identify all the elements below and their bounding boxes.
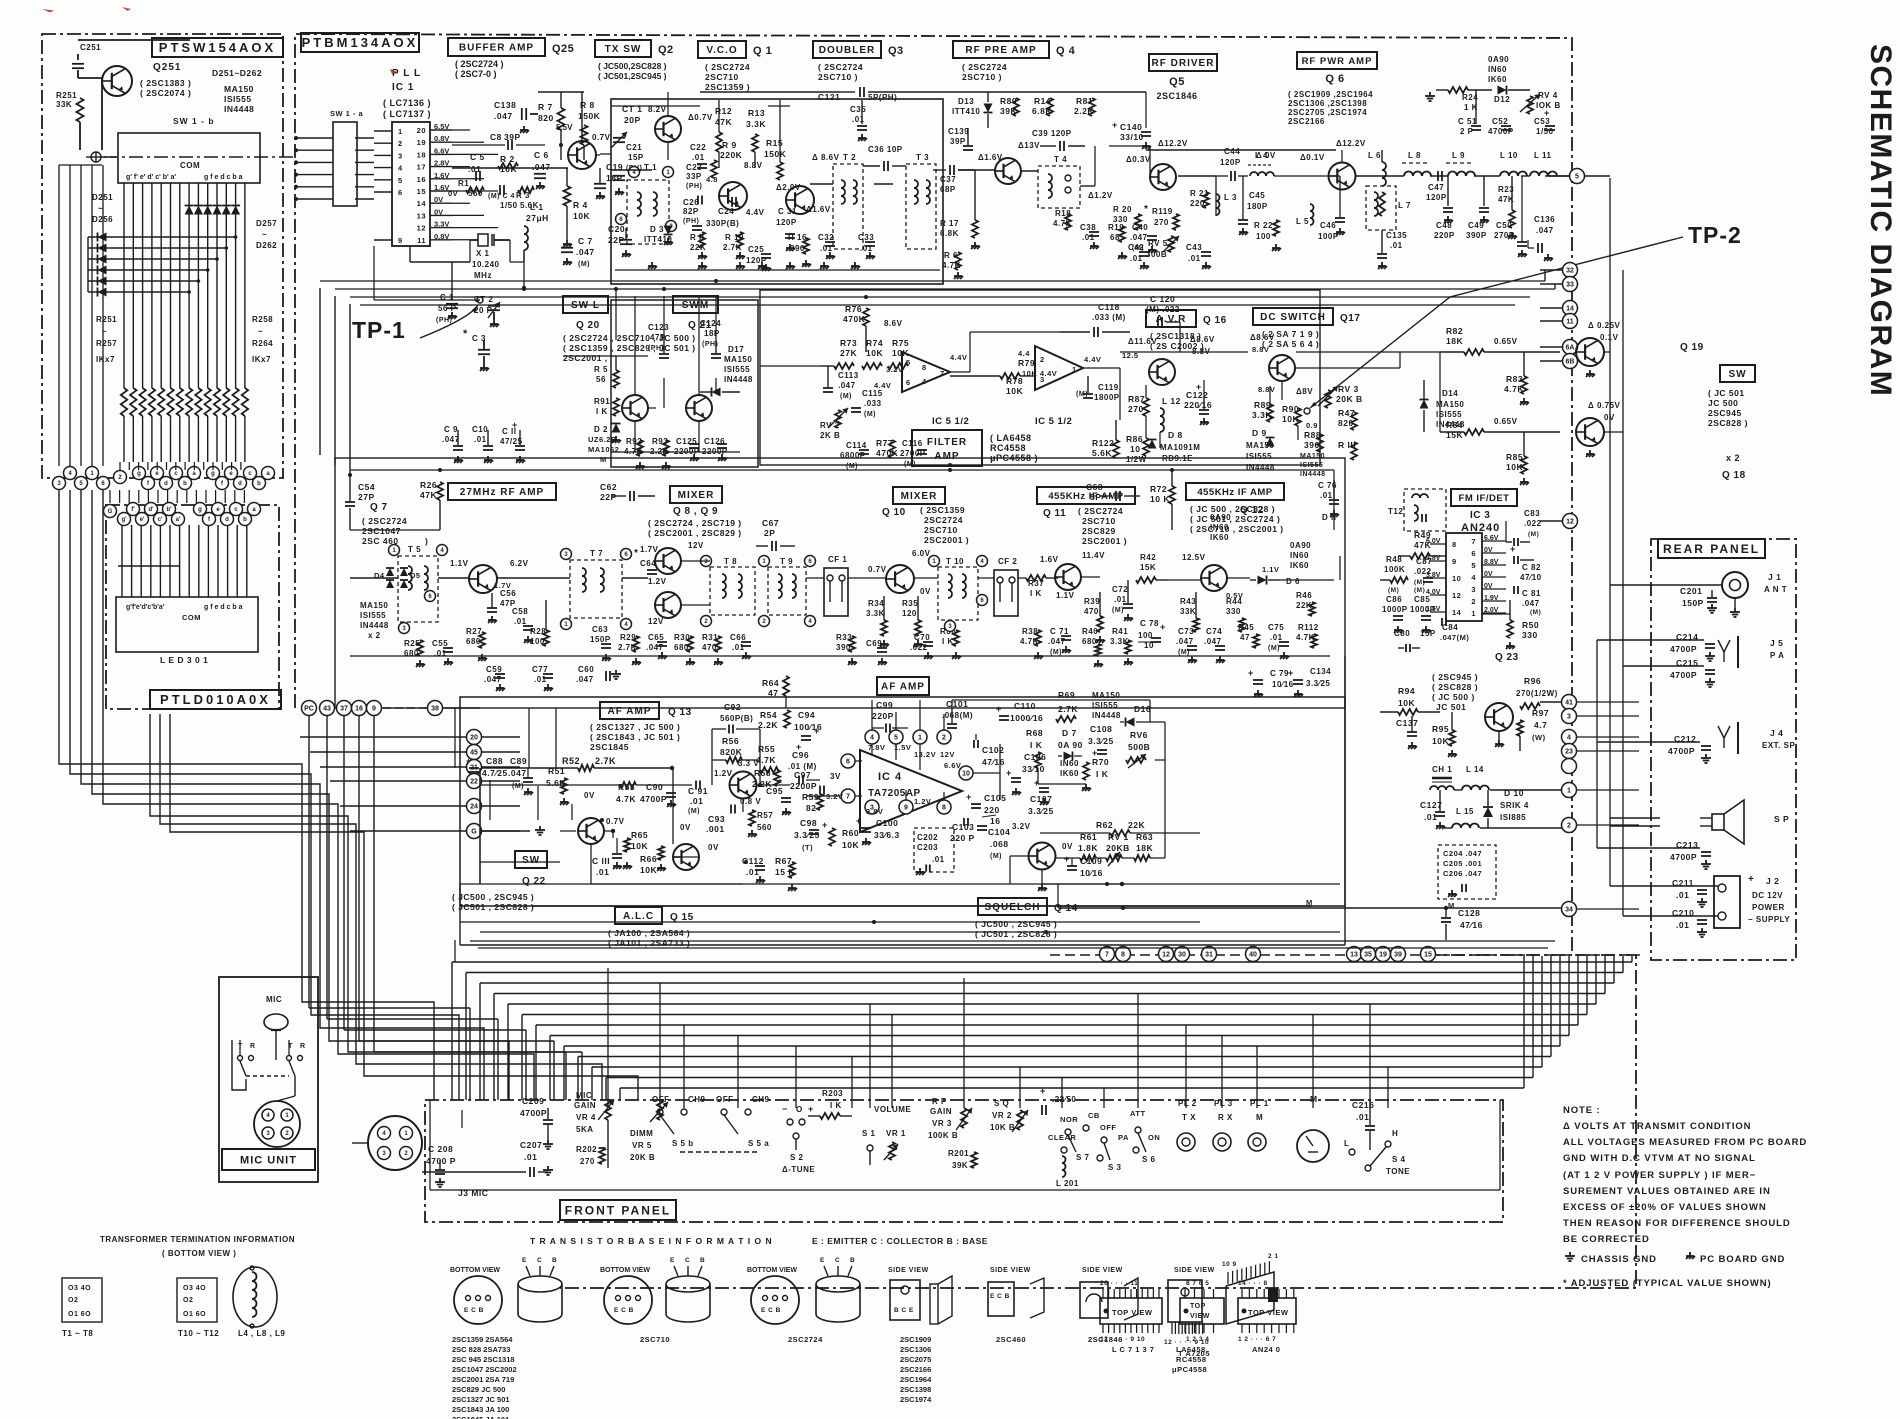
label R251-R257 bbox=[96, 315, 117, 364]
capacitor C8 bbox=[452, 132, 545, 150]
svg-text:A N T: A N T bbox=[1764, 585, 1787, 594]
svg-text:C70: C70 bbox=[914, 633, 930, 642]
svg-text:C 9: C 9 bbox=[444, 425, 458, 434]
svg-text:C123: C123 bbox=[648, 323, 669, 332]
capacitor C106 bbox=[1006, 752, 1046, 795]
svg-text:1: 1 bbox=[398, 127, 403, 136]
svg-text:(AT 1 2 V POWER SUPPLY ) IF M: (AT 1 2 V POWER SUPPLY ) IF MER− bbox=[1563, 1170, 1756, 1181]
wire swb col 9 bbox=[207, 183, 209, 388]
svg-text:8: 8 bbox=[1452, 540, 1457, 549]
wire rx row box bbox=[335, 458, 1345, 708]
resistor R37 bbox=[1018, 575, 1058, 598]
svg-text:J 4: J 4 bbox=[1770, 728, 1783, 738]
svg-text:SW: SW bbox=[522, 855, 540, 866]
label Q23 types bbox=[1432, 672, 1478, 712]
svg-text:C93: C93 bbox=[708, 814, 725, 824]
capacitor C120 bbox=[1140, 294, 1180, 327]
svg-text:20 · · · · 11: 20 · · · · 11 bbox=[1100, 1280, 1138, 1287]
resistor R49 bbox=[1398, 530, 1446, 559]
svg-text:L 8: L 8 bbox=[1408, 151, 1421, 160]
wire led col 9 bbox=[207, 525, 209, 597]
svg-text:C121: C121 bbox=[818, 92, 840, 102]
node pin 2 out bbox=[1562, 818, 1577, 833]
node pin b row1 bbox=[179, 477, 192, 490]
wire rear feed 640 bbox=[1597, 639, 1660, 641]
svg-text:E C B: E C B bbox=[990, 1293, 1010, 1300]
label Q13 types bbox=[590, 722, 680, 752]
transistor Q22a bbox=[673, 844, 699, 870]
label transistor base info bbox=[530, 1236, 773, 1246]
svg-text:CH9: CH9 bbox=[688, 1095, 706, 1104]
svg-text:R64: R64 bbox=[762, 678, 779, 688]
svg-text:TONE: TONE bbox=[1386, 1167, 1410, 1176]
svg-text:18P: 18P bbox=[704, 329, 720, 338]
svg-text:C75: C75 bbox=[1268, 623, 1284, 632]
svg-text:Δ0.3V: Δ0.3V bbox=[1126, 155, 1151, 164]
connector J2 bbox=[1714, 874, 1790, 928]
resistor bank 0 bbox=[121, 388, 127, 462]
svg-text:47⁄16: 47⁄16 bbox=[982, 757, 1005, 767]
svg-text:I K: I K bbox=[830, 1101, 842, 1110]
svg-text:VR 2: VR 2 bbox=[992, 1111, 1012, 1120]
svg-text:20K B: 20K B bbox=[630, 1153, 655, 1162]
svg-text:2SC1974: 2SC1974 bbox=[900, 1395, 932, 1404]
svg-text:12 · · · · 9 10: 12 · · · · 9 10 bbox=[1100, 1336, 1145, 1343]
svg-text:C33: C33 bbox=[858, 233, 874, 242]
svg-text:D257: D257 bbox=[256, 219, 277, 228]
svg-text:x 2: x 2 bbox=[368, 631, 381, 640]
wire fp bus h5 bbox=[522, 1014, 1587, 1016]
svg-text:RV 3: RV 3 bbox=[1338, 384, 1359, 394]
capacitor C89 bbox=[508, 756, 533, 795]
pkg LC7137 top view bbox=[1100, 1280, 1162, 1343]
transistor Q13 bbox=[730, 772, 757, 799]
transformer T9 bbox=[759, 556, 816, 627]
svg-text:D17: D17 bbox=[728, 345, 744, 354]
wire ic4 top caps bbox=[872, 700, 952, 730]
lamp PL1 bbox=[1248, 1099, 1269, 1151]
svg-text:L 7: L 7 bbox=[1398, 201, 1411, 210]
svg-text:g: g bbox=[211, 471, 215, 477]
svg-text:5.6K: 5.6K bbox=[520, 201, 539, 210]
node pin 45 col bbox=[467, 745, 521, 760]
diode D4 bbox=[374, 568, 394, 588]
transformer T8 bbox=[701, 556, 756, 627]
wire pll to tp bbox=[452, 262, 484, 340]
capacitor C71 bbox=[1048, 627, 1071, 656]
svg-text:T X: T X bbox=[1182, 1113, 1196, 1122]
capacitor C76 bbox=[1318, 480, 1339, 517]
resistor R93 bbox=[650, 437, 671, 469]
svg-text:B C E: B C E bbox=[894, 1307, 914, 1314]
svg-text:3.3⁄25: 3.3⁄25 bbox=[794, 830, 820, 840]
label swb pins b bbox=[204, 174, 243, 181]
svg-text:2SC2001 2SA 719: 2SC2001 2SA 719 bbox=[452, 1375, 514, 1384]
svg-text:MA150: MA150 bbox=[724, 355, 752, 364]
svg-text:VR 3: VR 3 bbox=[932, 1119, 952, 1128]
svg-text:5: 5 bbox=[894, 735, 898, 742]
svg-text:B: B bbox=[700, 1257, 705, 1264]
wire swl rail bbox=[563, 356, 699, 440]
transistor Q8 bbox=[655, 548, 681, 574]
svg-text:IN4448: IN4448 bbox=[724, 375, 753, 384]
svg-text:27P: 27P bbox=[358, 492, 375, 502]
transistor Q14 bbox=[1029, 843, 1056, 870]
resistor R58 bbox=[752, 768, 780, 789]
wire fp bus vr6 bbox=[1577, 956, 1579, 1025]
svg-text:4700P: 4700P bbox=[640, 794, 667, 804]
svg-text:b: b bbox=[257, 481, 261, 487]
svg-text:2SC2075: 2SC2075 bbox=[900, 1355, 931, 1364]
capacitor C3 bbox=[463, 328, 490, 371]
wire led col 13 bbox=[246, 525, 248, 597]
label Q17 types bbox=[1262, 329, 1319, 349]
svg-text:MIXER: MIXER bbox=[901, 491, 938, 502]
svg-text:35: 35 bbox=[1364, 952, 1372, 959]
svg-text:T 10: T 10 bbox=[946, 557, 964, 566]
capacitor C82 bbox=[1510, 544, 1542, 582]
svg-text:T12: T12 bbox=[1388, 507, 1403, 516]
wire rear feed 742 bbox=[1597, 741, 1660, 743]
label note line 4 bbox=[1563, 1170, 1756, 1181]
svg-text:ATT: ATT bbox=[1130, 1109, 1146, 1118]
label 0.65V q18 bbox=[1494, 417, 1518, 426]
resistor R36 bbox=[940, 627, 961, 659]
inductor L7 bbox=[1366, 186, 1411, 230]
svg-text:4700P: 4700P bbox=[520, 1108, 547, 1118]
label note line 7 bbox=[1563, 1218, 1791, 1229]
diode D14 bbox=[1420, 380, 1465, 432]
svg-text:JC 500: JC 500 bbox=[1708, 398, 1738, 408]
svg-text:C136: C136 bbox=[1534, 215, 1555, 224]
label Q10 types bbox=[920, 505, 969, 545]
wire midpin stair 4 bbox=[374, 716, 582, 1100]
label Q23 name bbox=[1495, 652, 1519, 663]
svg-text:2SC710 ): 2SC710 ) bbox=[818, 72, 858, 82]
pin IC1 R19 bbox=[417, 134, 452, 147]
svg-text:4: 4 bbox=[922, 377, 927, 386]
wire swb col 4 bbox=[160, 183, 162, 388]
svg-text:2SC1909: 2SC1909 bbox=[900, 1335, 931, 1344]
wire swl internal bbox=[611, 356, 740, 452]
crystal X1 bbox=[470, 234, 510, 246]
capacitor C95 bbox=[766, 778, 791, 815]
svg-text:.01: .01 bbox=[1082, 233, 1095, 242]
svg-text:6B: 6B bbox=[1566, 359, 1575, 366]
node pin 37 mid bbox=[337, 701, 352, 716]
wire preamp path bbox=[1021, 146, 1095, 186]
resistor R30 bbox=[674, 633, 695, 665]
svg-text:6: 6 bbox=[398, 188, 403, 197]
capacitor C251 bbox=[72, 43, 102, 78]
wire tp1 node bbox=[452, 299, 480, 301]
svg-text:0.7V: 0.7V bbox=[606, 817, 625, 826]
wire c128 bus bbox=[1058, 884, 1561, 910]
svg-text:2: 2 bbox=[398, 139, 403, 148]
svg-text:d: d bbox=[225, 517, 229, 523]
svg-text:L 9: L 9 bbox=[1452, 151, 1465, 160]
wire led col 3 bbox=[150, 525, 152, 597]
svg-text:12V: 12V bbox=[648, 617, 664, 626]
svg-text:.047: .047 bbox=[508, 768, 527, 778]
svg-text:5: 5 bbox=[1575, 174, 1579, 181]
svg-text:S 7: S 7 bbox=[1076, 1153, 1090, 1162]
svg-text:R73: R73 bbox=[840, 338, 857, 348]
TX SW title bbox=[595, 40, 674, 57]
svg-text:NOTE :: NOTE : bbox=[1563, 1105, 1601, 1116]
svg-text:S 2: S 2 bbox=[790, 1153, 804, 1162]
capacitor C46 bbox=[1318, 176, 1345, 241]
svg-text:(M): (M) bbox=[1414, 587, 1425, 594]
svg-text:0.65V: 0.65V bbox=[1494, 417, 1518, 426]
capacitor C87 bbox=[1414, 557, 1433, 586]
wire fp drop 7 bbox=[891, 1014, 893, 1108]
svg-text:2SC1359 ): 2SC1359 ) bbox=[705, 82, 750, 92]
wire g gnd bbox=[482, 826, 545, 835]
node pin 3 row1 bbox=[53, 477, 66, 490]
svg-text:R59: R59 bbox=[802, 792, 819, 802]
svg-text:0V: 0V bbox=[1062, 842, 1073, 851]
svg-text:L 12: L 12 bbox=[1162, 396, 1181, 406]
svg-text:C201: C201 bbox=[1680, 586, 1702, 596]
svg-text:C47: C47 bbox=[1428, 183, 1444, 192]
wire j1 gnd bbox=[1730, 598, 1740, 617]
resistor R82 bbox=[1440, 326, 1560, 355]
svg-text:0V: 0V bbox=[920, 587, 931, 596]
svg-text:Q3: Q3 bbox=[888, 45, 904, 57]
diode D6 bbox=[1250, 576, 1300, 587]
svg-text:4700P: 4700P bbox=[1488, 127, 1514, 136]
capacitor C74 bbox=[1204, 627, 1225, 663]
svg-text:1.2V: 1.2V bbox=[648, 577, 667, 586]
wire fp bus vr3 bbox=[1604, 956, 1606, 994]
svg-text:( 2SC2724: ( 2SC2724 bbox=[705, 62, 750, 72]
svg-text:C135: C135 bbox=[1386, 231, 1407, 240]
svg-text:.01: .01 bbox=[746, 867, 759, 877]
svg-text:L 10: L 10 bbox=[1500, 151, 1518, 160]
pin IC4 4 bbox=[865, 730, 879, 755]
svg-text:J 1: J 1 bbox=[1768, 572, 1781, 582]
label 12V b bbox=[648, 617, 664, 626]
svg-text:ISI555: ISI555 bbox=[1246, 452, 1272, 461]
wire dc sw out bbox=[1295, 352, 1440, 432]
svg-text:FM IF/DET: FM IF/DET bbox=[1459, 493, 1510, 504]
svg-text:g f e d c b a: g f e d c b a bbox=[204, 604, 243, 611]
svg-text:5KA: 5KA bbox=[576, 1125, 594, 1134]
svg-text:.068: .068 bbox=[990, 839, 1009, 849]
node pin 24 col bbox=[467, 799, 521, 814]
svg-text:P A: P A bbox=[1770, 651, 1784, 660]
resistor R122 bbox=[1092, 420, 1119, 458]
resistor R86 bbox=[1126, 434, 1149, 464]
svg-text:TOP: TOP bbox=[1190, 1303, 1206, 1310]
capacitor C118 bbox=[1060, 302, 1130, 337]
node pin e row2 bbox=[212, 503, 225, 516]
svg-text:3: 3 bbox=[398, 151, 403, 160]
label Q25 types bbox=[455, 59, 504, 79]
wire fp bus h3 bbox=[494, 993, 1605, 995]
svg-text:( 2SC1383 ): ( 2SC1383 ) bbox=[140, 78, 191, 88]
label pkg AN240 bbox=[1252, 1345, 1280, 1354]
resistor R34 bbox=[866, 596, 889, 647]
svg-text:33: 33 bbox=[1566, 282, 1574, 289]
svg-text:(M) .022: (M) .022 bbox=[1146, 305, 1180, 314]
wire swb col 3 bbox=[151, 183, 153, 388]
svg-text:R62: R62 bbox=[1096, 820, 1113, 830]
transistor Q11 bbox=[1055, 564, 1081, 590]
label 0.5V bbox=[1226, 591, 1243, 600]
label d0.1V bbox=[1300, 153, 1325, 162]
pkg 2SC1359 group bottom view bbox=[450, 1257, 562, 1324]
pkg TA7205 3d bbox=[1222, 1253, 1279, 1324]
svg-text:C85: C85 bbox=[1414, 595, 1430, 604]
capacitor C103 bbox=[950, 818, 975, 843]
label T10-T12 bbox=[178, 1329, 219, 1338]
wire q6 out drop bbox=[1545, 270, 1555, 289]
pin IC1 R16 bbox=[417, 171, 452, 184]
svg-text:1.1V: 1.1V bbox=[1056, 591, 1075, 600]
svg-text:3.3K: 3.3K bbox=[746, 119, 766, 129]
svg-text:( 2SC2724 , 2SC719 ): ( 2SC2724 , 2SC719 ) bbox=[648, 518, 742, 528]
svg-text:68P: 68P bbox=[940, 185, 956, 194]
pin IC4 8 bbox=[937, 792, 951, 814]
svg-text:D16: D16 bbox=[1134, 704, 1151, 714]
resistor R75 bbox=[888, 338, 909, 369]
svg-text:C119: C119 bbox=[1098, 383, 1119, 392]
svg-text:.01: .01 bbox=[732, 643, 745, 652]
svg-text:2SC829: 2SC829 bbox=[1082, 526, 1116, 536]
svg-text:4: 4 bbox=[870, 735, 874, 742]
svg-text:PL 3: PL 3 bbox=[1214, 1099, 1233, 1108]
diode D9 bbox=[1246, 428, 1275, 472]
svg-text:.01: .01 bbox=[932, 855, 945, 864]
svg-text:C 82: C 82 bbox=[1522, 563, 1541, 572]
svg-text:2SC460: 2SC460 bbox=[996, 1335, 1026, 1344]
svg-text:455KHz IF AMP: 455KHz IF AMP bbox=[1048, 491, 1123, 502]
svg-text:R201: R201 bbox=[948, 1149, 969, 1158]
svg-text:T1 ~ T8: T1 ~ T8 bbox=[62, 1329, 93, 1338]
label d1.6V preamp bbox=[978, 153, 1003, 162]
svg-text:C III: C III bbox=[592, 856, 610, 866]
label Q251 types bbox=[140, 78, 191, 98]
transformer T3 bbox=[906, 153, 936, 249]
svg-text:5P: 5P bbox=[1090, 492, 1101, 502]
svg-text:.047: .047 bbox=[494, 111, 513, 121]
svg-text:Q 4: Q 4 bbox=[1056, 45, 1076, 57]
label D251-D256 bbox=[92, 193, 113, 224]
svg-text:RC4558: RC4558 bbox=[1176, 1355, 1207, 1364]
svg-text:C 51: C 51 bbox=[1458, 117, 1477, 126]
diode row 2 bbox=[88, 255, 219, 264]
wire ic3 out bbox=[1482, 521, 1510, 614]
svg-text:20KB: 20KB bbox=[1106, 843, 1130, 853]
svg-text:R27: R27 bbox=[466, 627, 482, 636]
svg-text:C 71: C 71 bbox=[1050, 627, 1069, 636]
svg-text:Δ0.7V: Δ0.7V bbox=[688, 113, 713, 122]
svg-text:E: E bbox=[820, 1257, 825, 1264]
svg-text:2SC710: 2SC710 bbox=[640, 1335, 670, 1344]
svg-text:4.7K: 4.7K bbox=[942, 261, 961, 270]
svg-text:1/50: 1/50 bbox=[1536, 127, 1554, 136]
svg-text:O3 4O: O3 4O bbox=[68, 1285, 91, 1292]
label 0.75V bbox=[1588, 401, 1621, 422]
label note line 5 bbox=[1563, 1186, 1771, 1197]
svg-text:( JC500 , 2SC945 ): ( JC500 , 2SC945 ) bbox=[975, 919, 1057, 929]
capacitor C102 bbox=[974, 734, 1005, 767]
label D11 d bbox=[1322, 513, 1336, 522]
svg-text:1: 1 bbox=[918, 735, 922, 742]
svg-text:T 8: T 8 bbox=[724, 557, 737, 566]
svg-text:Δ 0.75V: Δ 0.75V bbox=[1588, 401, 1621, 410]
op-amp IC5a bbox=[902, 352, 950, 392]
svg-text:R251: R251 bbox=[96, 315, 117, 324]
capacitor C134 bbox=[1288, 667, 1331, 697]
capacitor C125 bbox=[674, 437, 700, 461]
svg-text:27MHz RF AMP: 27MHz RF AMP bbox=[460, 487, 544, 498]
svg-text:82: 82 bbox=[806, 803, 816, 813]
label pkg LC7137 bbox=[1112, 1345, 1154, 1354]
svg-text:Q5: Q5 bbox=[1169, 76, 1185, 88]
label 11.4V bbox=[1082, 551, 1105, 560]
svg-text:Q 22: Q 22 bbox=[522, 876, 546, 887]
pot RF GAIN VR3 bbox=[928, 1097, 972, 1140]
svg-text:O: O bbox=[796, 1105, 803, 1114]
diode D13 bbox=[952, 92, 993, 128]
capacitor C21 bbox=[613, 143, 644, 195]
label Q21 name bbox=[688, 320, 712, 331]
svg-text:390: 390 bbox=[790, 244, 805, 253]
wire fp drop 18 bbox=[1387, 1067, 1389, 1108]
svg-text:C106: C106 bbox=[1024, 752, 1046, 762]
wire swb col 1 bbox=[132, 183, 134, 388]
capacitor C201 bbox=[1660, 585, 1722, 613]
svg-text:R65: R65 bbox=[631, 830, 648, 840]
svg-text:COM: COM bbox=[182, 613, 201, 622]
svg-text:.01: .01 bbox=[524, 1152, 537, 1162]
svg-text:C 120: C 120 bbox=[1150, 294, 1175, 304]
wire rail y92b bbox=[1110, 92, 1146, 128]
svg-text:E: E bbox=[522, 1257, 527, 1264]
capacitor C47 bbox=[1426, 171, 1447, 202]
label Q22 types bbox=[452, 892, 534, 912]
junction dots bus bbox=[348, 279, 1174, 934]
svg-text:IC 5 1/2: IC 5 1/2 bbox=[932, 416, 969, 427]
svg-text:C90: C90 bbox=[646, 782, 663, 792]
resistor R251a 33K bbox=[56, 60, 84, 150]
svg-text:7.8V: 7.8V bbox=[868, 743, 885, 752]
wire fp bus v5 bbox=[521, 1015, 523, 1101]
label pkg 2SC710 bbox=[640, 1335, 670, 1344]
capacitor C212 bbox=[1660, 734, 1711, 763]
pkg TA7205 side view bbox=[1168, 1267, 1215, 1334]
wire sw1a 2 bbox=[294, 160, 374, 164]
wire fp bottom bus bbox=[430, 1110, 1500, 1190]
wire fp drop 5 bbox=[851, 1056, 853, 1108]
resistor R61 bbox=[1056, 832, 1098, 861]
svg-text:2SC 828 2SA733: 2SC 828 2SA733 bbox=[452, 1345, 510, 1354]
wire led col 2 bbox=[140, 525, 142, 597]
svg-text:2SC2705 ,2SC1974: 2SC2705 ,2SC1974 bbox=[1288, 108, 1367, 117]
svg-text:C8: C8 bbox=[490, 132, 502, 142]
svg-text:V.C.O: V.C.O bbox=[706, 45, 737, 56]
label TP-2 bbox=[1688, 222, 1742, 248]
diode row 4 bbox=[88, 277, 200, 286]
svg-text:16: 16 bbox=[990, 816, 1000, 826]
svg-text:Q17: Q17 bbox=[1340, 313, 1360, 324]
svg-text:0.7V: 0.7V bbox=[868, 565, 887, 574]
wire bus y281 bbox=[320, 280, 1545, 282]
wire fp bus vr0 bbox=[1631, 956, 1633, 962]
